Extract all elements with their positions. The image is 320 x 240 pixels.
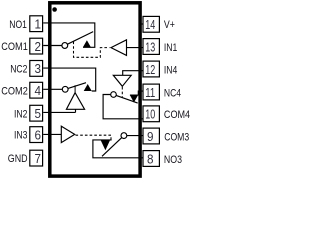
switch S1 arm bbox=[68, 32, 94, 45]
svg-text:7: 7 bbox=[34, 151, 41, 166]
svg-text:COM1: COM1 bbox=[1, 41, 28, 53]
pin 7 box bbox=[30, 150, 43, 166]
wire pin3 NC2 rail bbox=[43, 68, 95, 91]
svg-text:6: 6 bbox=[34, 127, 41, 142]
dashed control line S4 bbox=[121, 87, 123, 98]
switch S2 NC contact arrow bbox=[84, 84, 92, 91]
pin 1 box bbox=[30, 16, 43, 32]
svg-text:COM2: COM2 bbox=[1, 85, 28, 97]
svg-text:IN3: IN3 bbox=[14, 130, 27, 142]
svg-text:2: 2 bbox=[34, 39, 41, 54]
svg-text:12: 12 bbox=[145, 62, 155, 77]
wire pin9 COM3 bbox=[127, 135, 143, 137]
wire pin1 NO1 rail bbox=[43, 23, 95, 47]
wire pin12 IN4 bbox=[123, 71, 144, 76]
IC body outline U1 (DIP-14) bbox=[50, 3, 140, 176]
svg-text:COM3: COM3 bbox=[164, 132, 189, 144]
svg-text:V+: V+ bbox=[164, 19, 175, 31]
pin 13 box bbox=[143, 39, 159, 55]
svg-text:IN1: IN1 bbox=[164, 42, 177, 54]
driver U1B input stub bbox=[75, 109, 77, 112]
dashed control line S3 bbox=[76, 135, 112, 140]
pin 14 box bbox=[143, 16, 159, 32]
svg-text:NO1: NO1 bbox=[9, 19, 27, 31]
driver U1B triangle (IN2) bbox=[66, 93, 84, 110]
svg-text:1: 1 bbox=[34, 17, 41, 32]
svg-text:13: 13 bbox=[145, 39, 155, 54]
svg-text:NC4: NC4 bbox=[164, 87, 181, 99]
wire pin14 V+ stub bbox=[140, 23, 143, 25]
svg-text:IN2: IN2 bbox=[14, 108, 27, 120]
switch S3 NO contact arrow bbox=[101, 140, 110, 150]
wire pin8 NO3 rail bbox=[93, 140, 143, 158]
svg-text:3: 3 bbox=[34, 61, 41, 76]
pin 5 box bbox=[30, 105, 43, 121]
svg-text:10: 10 bbox=[145, 107, 155, 122]
svg-text:NC2: NC2 bbox=[10, 64, 27, 76]
pin 6 box bbox=[30, 127, 43, 143]
driver U1A triangle (IN1) bbox=[111, 40, 127, 56]
pin 3 box bbox=[30, 61, 43, 77]
wire pin10 COM4 bbox=[103, 95, 143, 119]
switch S1 NO contact arrow bbox=[83, 40, 91, 47]
svg-text:14: 14 bbox=[145, 17, 155, 32]
switch S3 pole circle bbox=[121, 133, 127, 139]
svg-text:11: 11 bbox=[145, 85, 155, 100]
wire pin6 IN3 bbox=[43, 133, 61, 135]
driver U1C triangle (IN3) bbox=[61, 126, 74, 142]
svg-text:8: 8 bbox=[147, 151, 154, 166]
wire pin2 COM1 bbox=[43, 45, 62, 47]
switch S1 pole circle bbox=[62, 43, 68, 49]
svg-text:GND: GND bbox=[8, 153, 28, 165]
switch S3 arm bbox=[102, 138, 122, 157]
switch S2 arm bbox=[68, 83, 86, 89]
wire pin13 IN1 bbox=[127, 47, 144, 49]
pin 4 box bbox=[30, 82, 43, 98]
driver U1B output stub bbox=[74, 85, 76, 92]
pin 11 box bbox=[143, 84, 159, 100]
svg-text:IN4: IN4 bbox=[164, 64, 177, 76]
switch S4 arm bbox=[116, 95, 138, 103]
dashed control line S1 bbox=[74, 42, 110, 58]
pin 9 box bbox=[143, 128, 159, 144]
pin 2 box bbox=[30, 38, 43, 54]
svg-text:COM4: COM4 bbox=[164, 109, 190, 121]
pin 10 box bbox=[143, 106, 159, 122]
pin 8 box bbox=[143, 151, 159, 167]
svg-text:NO3: NO3 bbox=[164, 154, 182, 166]
wire pin11 NC4 bbox=[130, 91, 143, 95]
switch S4 NC contact arrow bbox=[130, 95, 138, 102]
wire pin4 COM2 bbox=[43, 88, 62, 90]
switch S4 pole circle bbox=[111, 92, 117, 98]
svg-text:5: 5 bbox=[34, 106, 41, 121]
svg-text:9: 9 bbox=[147, 129, 154, 144]
svg-text:4: 4 bbox=[34, 83, 41, 98]
pin 12 box bbox=[143, 61, 159, 77]
switch S2 pole circle bbox=[62, 86, 68, 92]
wire pin5 IN2 bbox=[43, 111, 75, 113]
driver U1D triangle (IN4) bbox=[113, 75, 131, 86]
pin 1 marker dot bbox=[52, 7, 57, 12]
